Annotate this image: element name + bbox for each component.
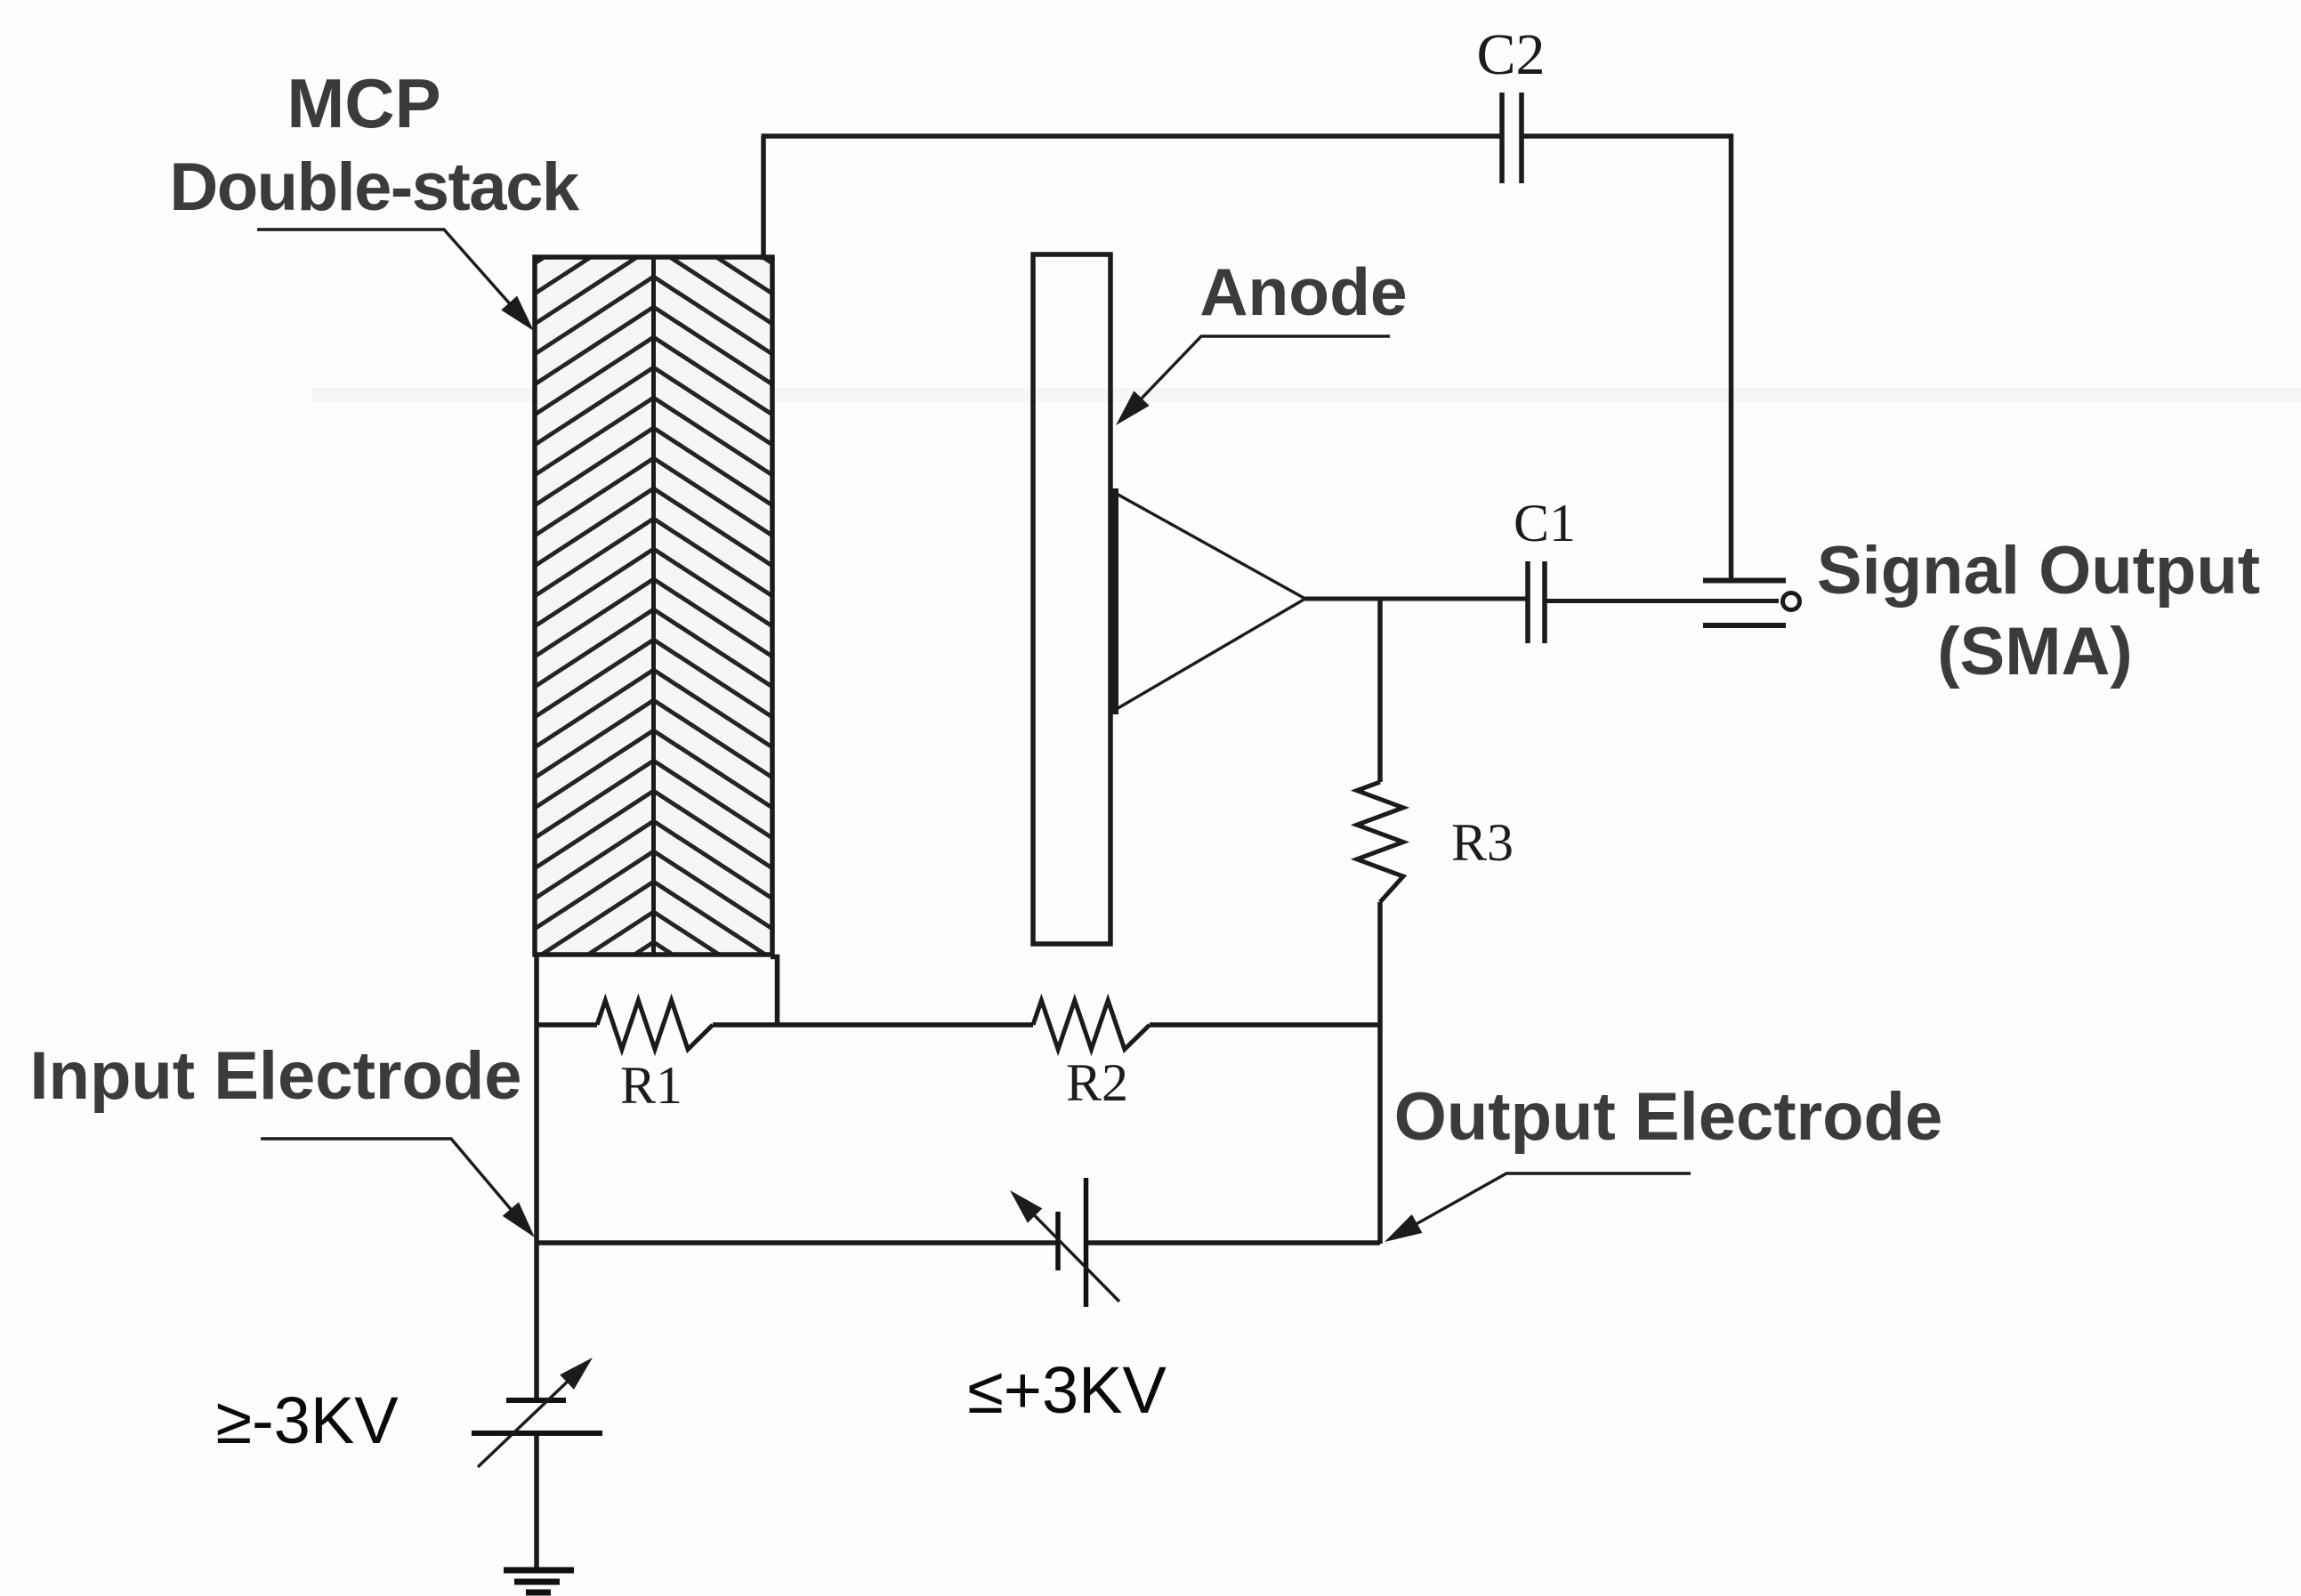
wire: left vertical (input electrode down to ground)	[534, 955, 539, 1571]
svg-text:R3: R3	[1451, 813, 1514, 872]
svg-text:Anode: Anode	[1199, 254, 1407, 329]
svg-text:C1: C1	[1514, 494, 1576, 552]
svg-text:R1: R1	[620, 1056, 682, 1115]
wire: anode cone apex to C1	[1304, 597, 1528, 601]
SMA connector	[1703, 581, 1786, 626]
MCP center divider	[651, 257, 656, 955]
anode cone sides	[1115, 493, 1304, 710]
wire: MCP top to top rail	[761, 136, 766, 260]
anode plate	[1033, 254, 1110, 944]
wire: bottom rail (input node to output node)	[537, 1240, 1380, 1245]
leader arrow: mcp	[257, 230, 514, 309]
leader arrow: output	[1411, 1173, 1691, 1227]
resistor R2	[1033, 1001, 1150, 1050]
resistor R3	[1357, 782, 1403, 902]
svg-text:Signal Output: Signal Output	[1817, 533, 2260, 609]
wire: C2 to right corner, down to SMA	[1522, 136, 1732, 583]
svg-text:C2: C2	[1476, 22, 1545, 87]
wire: MCP output electrode step	[771, 957, 778, 1026]
variable HV source (input side) plates	[472, 1400, 602, 1433]
svg-text:≥-3KV: ≥-3KV	[215, 1383, 399, 1457]
svg-text:MCP: MCP	[287, 64, 440, 142]
wire: junction down through R3 to output node	[1377, 599, 1383, 1244]
resistor R1	[597, 1001, 713, 1050]
wire: R1/R2 rail	[537, 1022, 1380, 1028]
svg-text:Input Electrode: Input Electrode	[29, 1038, 521, 1114]
anode cone base	[1110, 488, 1118, 714]
leader arrow: input	[261, 1139, 515, 1214]
svg-text:Double-stack: Double-stack	[169, 149, 579, 225]
leader arrow: anode	[1137, 336, 1391, 404]
capacitor C1	[1528, 561, 1545, 643]
variable HV source (bottom rail) plates	[1058, 1178, 1086, 1307]
svg-text:R2: R2	[1066, 1053, 1128, 1112]
capacitor C2	[1502, 93, 1522, 183]
wire: C1 to SMA pin	[1545, 599, 1779, 603]
variable source arrow (bottom rail)	[1029, 1209, 1119, 1302]
svg-text:(SMA): (SMA)	[1937, 614, 2133, 689]
variable source arrow (input side)	[478, 1376, 573, 1467]
MCP double-stack outline	[535, 257, 772, 955]
MCP double-stack hatched body	[535, 257, 772, 955]
wire: top rail to C2	[762, 133, 1503, 139]
ground	[504, 1570, 574, 1592]
svg-text:≤+3KV: ≤+3KV	[967, 1353, 1167, 1427]
svg-text:Output Electrode: Output Electrode	[1394, 1079, 1942, 1155]
